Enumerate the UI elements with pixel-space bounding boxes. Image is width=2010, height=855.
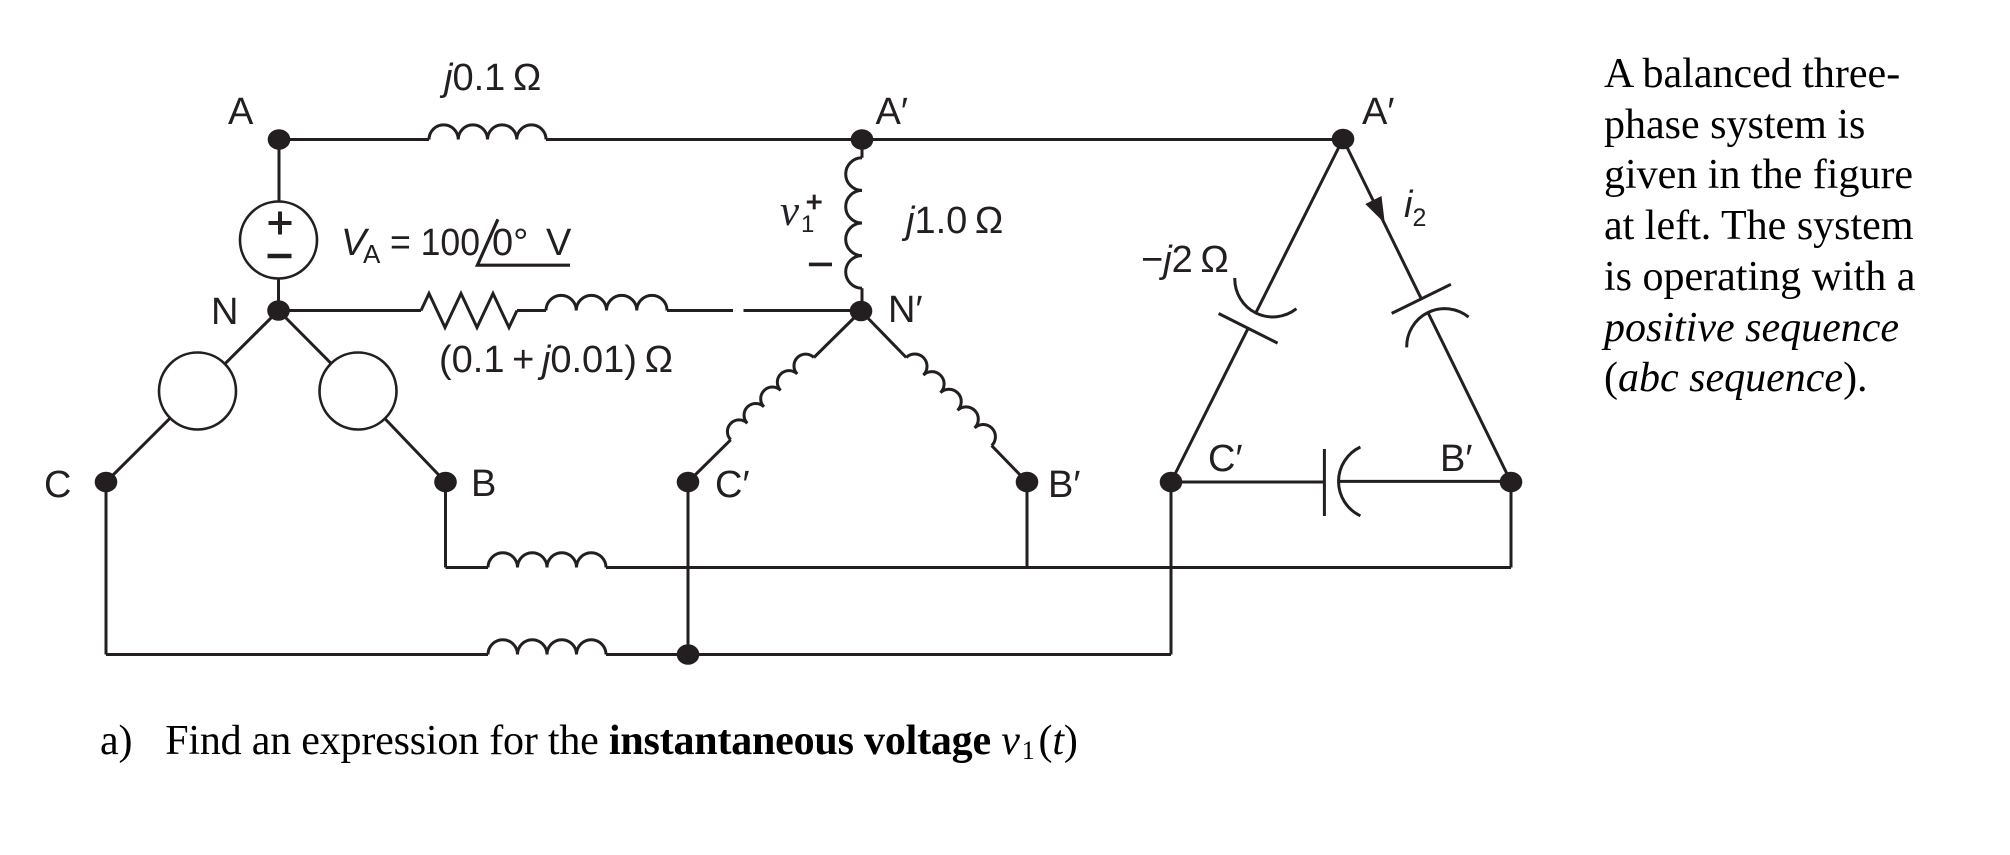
wire N' to left leg inductor: [814, 311, 861, 358]
node B dot: [434, 472, 457, 493]
inductor j0.01 ohm: [546, 295, 667, 310]
phase source circle right: [320, 353, 397, 430]
svg-text:N′: N′: [888, 289, 923, 331]
svg-text:C: C: [44, 464, 71, 506]
wire phase-C source to C: [106, 418, 170, 482]
wire resistor to inductor: [517, 309, 546, 312]
svg-text:C′: C′: [715, 464, 750, 506]
current arrow i2: [1365, 196, 1385, 223]
wire source to N: [277, 279, 280, 311]
node B' wye dot: [1016, 472, 1039, 493]
inductor middle line: [488, 553, 606, 568]
node A' delta dot: [1332, 129, 1355, 150]
wire bottom capacitor to delta B': [1339, 480, 1512, 483]
capacitor right side curved plate: [1407, 309, 1469, 348]
svg-text:B: B: [471, 463, 496, 505]
svg-text:j1.0 Ω: j1.0 Ω: [901, 200, 1003, 242]
node C dot: [95, 472, 118, 493]
wire middle line left: [446, 566, 489, 569]
phase source circle left: [159, 353, 236, 430]
node A' dot: [851, 129, 874, 150]
svg-text:(0.1 + j0.01) Ω: (0.1 + j0.01) Ω: [439, 339, 673, 381]
wire delta B' down stub: [1510, 482, 1513, 568]
node N' dot: [850, 301, 873, 322]
wire delta apex to left capacitor: [1256, 139, 1343, 313]
wire C down: [105, 482, 108, 655]
wire A down to source: [278, 140, 281, 202]
node C' delta dot: [1160, 472, 1183, 493]
wire C' wye down: [687, 482, 690, 655]
svg-text:0°: 0°: [492, 222, 528, 264]
inductor bottom line: [488, 640, 606, 655]
wire N to phase-B source: [279, 311, 332, 364]
node B' delta dot: [1500, 472, 1523, 493]
wire right capacitor to delta B': [1428, 313, 1511, 482]
svg-text:1: 1: [801, 211, 814, 238]
svg-text:A′: A′: [1362, 91, 1394, 133]
source minus sign: [268, 254, 292, 259]
svg-text:= 100: = 100: [390, 222, 480, 264]
wire middle line right: [606, 566, 1511, 569]
wire A' down: [861, 140, 864, 158]
wire inductor to N': [861, 288, 864, 311]
svg-text:v: v: [780, 188, 800, 235]
wire N to resistor: [279, 309, 422, 312]
svg-text:B′: B′: [1440, 438, 1472, 480]
svg-text:N: N: [211, 291, 238, 333]
wire B' wye down: [1026, 482, 1029, 568]
label v1 minus: [809, 263, 832, 267]
svg-text:A: A: [363, 239, 381, 269]
wire delta C' down stub: [1170, 482, 1173, 655]
wire right leg to B': [992, 446, 1027, 482]
capacitor bottom curved plate: [1339, 447, 1361, 516]
resistor 0.1 ohm: [421, 294, 517, 328]
svg-text:A′: A′: [876, 91, 908, 133]
svg-text:−j2 Ω: −j2 Ω: [1141, 239, 1229, 281]
wire delta apex to right capacitor: [1343, 139, 1421, 299]
svg-text:i2: i2: [1404, 184, 1426, 232]
wire top inductor to A' to delta apex: [546, 138, 1343, 141]
wire N to phase-C source: [225, 311, 279, 364]
inductor j1.0 ohm: [846, 158, 862, 288]
svg-text:j0.1 Ω: j0.1 Ω: [439, 57, 541, 99]
capacitor right side straight plate: [1392, 284, 1451, 313]
wire bottom line right: [606, 653, 1171, 656]
inductor left wye leg: [727, 354, 813, 440]
wire left capacitor to delta C': [1171, 328, 1248, 482]
wire B down: [444, 482, 447, 568]
bottom caption: [100, 716, 1078, 766]
wire phase-B source to B: [385, 419, 446, 482]
node C' wye dot: [677, 472, 700, 493]
voltage source VA circle: [240, 202, 317, 279]
node N dot: [267, 300, 290, 321]
wire left leg to C': [688, 440, 731, 482]
wire N' to right leg inductor: [861, 311, 906, 358]
label v1 plus: [807, 195, 822, 210]
capacitor bottom straight plate: [1323, 449, 1326, 516]
wire inductor to gap: [667, 309, 733, 312]
wire gap to N': [744, 309, 862, 312]
inductor j0.1 ohm line A: [429, 125, 546, 140]
node A dot: [268, 129, 291, 150]
svg-text:A: A: [228, 91, 254, 133]
angle symbol: [477, 219, 570, 265]
junction dot bottom: [677, 644, 700, 665]
source plus sign: [269, 212, 292, 235]
svg-text:B′: B′: [1048, 464, 1080, 506]
capacitor -j2 straight plate left side: [1219, 314, 1278, 344]
capacitor -j2 curved plate left side: [1235, 278, 1297, 317]
svg-text:C′: C′: [1208, 438, 1243, 480]
svg-text:V: V: [546, 222, 572, 264]
wire A to top inductor: [279, 138, 429, 141]
inductor right wye leg: [906, 354, 995, 446]
right side paragraph: [1604, 49, 1915, 404]
wire delta C' to bottom capacitor: [1171, 481, 1324, 484]
wire bottom line left: [106, 653, 488, 656]
